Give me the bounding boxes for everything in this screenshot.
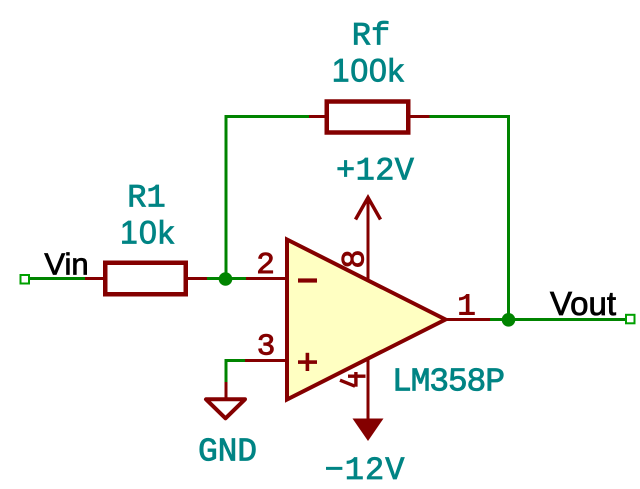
resistor R1 [105,263,186,295]
wire: R1 to node A [207,277,246,280]
pin: Rf left [309,115,327,118]
wire: pin3 to ground [226,361,245,384]
Vin connector square [21,275,30,284]
svg-text:2: 2 [256,248,275,283]
pin 3 [245,359,287,362]
svg-text:3: 3 [257,330,276,365]
op-amp plus input mark [298,360,317,364]
pin 8 [367,198,370,280]
ground pin stub [225,382,228,399]
svg-text:Vin: Vin [44,247,88,282]
pin 4 [367,360,370,421]
svg-text:8: 8 [337,249,374,268]
node A junction dot [219,272,233,286]
svg-text:Rf: Rf [352,18,390,55]
power symbol -12V arrow [353,419,384,442]
resistor Rf [327,102,409,133]
svg-text:Vout: Vout [550,285,616,322]
power symbol +12V arrow [356,198,381,220]
svg-text:1: 1 [457,290,476,325]
pin: Rf right [408,115,430,118]
svg-text:100k: 100k [332,53,405,89]
wire: feedback top right + right vertical [430,117,509,320]
svg-text:−12V: −12V [325,452,406,484]
pin: R1 left [85,277,106,280]
svg-text:10k: 10k [120,214,175,250]
wire: output to Vout [490,318,626,321]
wire: feedback left vertical + top horizontal [226,117,309,279]
pin: R1 right [186,277,207,280]
Vout connector square [626,315,635,324]
svg-text:GND: GND [198,433,257,470]
svg-text:LM358P: LM358P [392,364,505,401]
wire: Vin to R1 [30,277,87,280]
svg-text:R1: R1 [127,180,165,217]
pin 2 [246,277,287,280]
output node junction dot [502,313,516,327]
op-amp U1 body [287,240,446,400]
op-amp minus input mark [298,278,317,282]
pin 4 number [354,372,357,387]
svg-text:+12V: +12V [336,153,415,190]
pin 1 [445,318,490,321]
ground symbol [206,399,245,418]
